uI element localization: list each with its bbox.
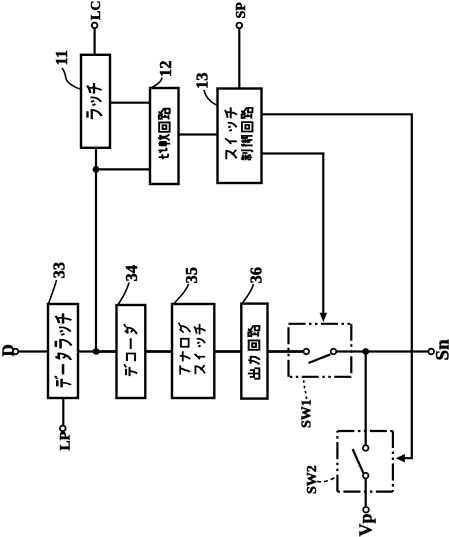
wire SW1 to Sn terminal through node J3 <box>337 350 428 352</box>
svg-text:D: D <box>0 344 18 356</box>
wire SP terminal to switch-control 13 <box>238 29 240 89</box>
label SW1 <box>300 379 315 428</box>
switch SW1 lever <box>309 354 331 363</box>
wire LC terminal to latch 11 <box>93 29 95 55</box>
wire switch-control 13 to SW1 (control, arrow into top) <box>262 154 327 323</box>
wire switch-control 13 to SW2 (feedback, arrow into right side) <box>262 114 412 462</box>
label SW2 <box>305 465 337 494</box>
svg-text:34: 34 <box>122 265 141 282</box>
block 33 data latch (データラッチ) <box>48 304 78 398</box>
label 12 with leader <box>151 61 176 89</box>
block 34 decoder (デコーダ) <box>117 305 146 398</box>
svg-text:33: 33 <box>50 262 69 279</box>
svg-text:12: 12 <box>156 61 175 78</box>
switch SW2 upper contact <box>363 445 369 451</box>
terminal LC <box>89 1 104 29</box>
label 34 with leader <box>118 265 142 306</box>
block 11 latch (ラッチ) <box>81 55 110 148</box>
wire node J1 down to data bus node J2 <box>95 169 97 351</box>
wire node J1 to comparator 12 <box>96 168 150 170</box>
switch SW1 right contact <box>331 349 337 355</box>
switch SW2 dash-dot enclosure <box>337 431 393 492</box>
node J1 junction dot <box>93 166 100 173</box>
terminal LP <box>58 426 74 451</box>
svg-text:35: 35 <box>182 267 201 284</box>
svg-text:SW2: SW2 <box>305 465 320 494</box>
label 11 with leader <box>52 50 82 89</box>
wire decoder 34 to analog switch 35 <box>145 350 172 353</box>
node J3 junction dot <box>362 348 369 355</box>
svg-text:SW1: SW1 <box>300 399 315 428</box>
label 33 with leader <box>49 262 69 304</box>
wire latch 11 bottom to node J1 <box>95 148 97 170</box>
wire latch 11 to comparator 12 <box>110 102 150 104</box>
wire SW2 to Vp terminal <box>365 479 367 507</box>
svg-text:36: 36 <box>247 267 266 284</box>
block 36 output circuit (出力回路) <box>241 304 267 399</box>
switch SW1 left contact <box>304 349 310 355</box>
svg-text:Sn: Sn <box>433 339 449 361</box>
terminal D <box>0 344 18 356</box>
svg-text:LP: LP <box>58 431 74 450</box>
svg-text:11: 11 <box>52 50 71 66</box>
terminal SP <box>234 2 249 28</box>
svg-text:13: 13 <box>193 73 212 90</box>
wire node J3 down into SW2 <box>365 352 367 445</box>
switch SW2 lower contact <box>363 473 369 479</box>
wire data latch 33 to LP terminal <box>62 398 64 425</box>
node J2 junction dot <box>93 348 100 355</box>
svg-text:LC: LC <box>89 1 104 20</box>
wire data latch 33 to decoder 34 through node J2 <box>78 350 117 352</box>
block 13 switch control circuit (スイッチ制御回路) <box>218 89 262 184</box>
wire analog switch 35 to output circuit 36 <box>214 350 241 353</box>
wire output circuit 36 into SW1 <box>268 350 304 353</box>
block 12 comparator (比較回路) <box>150 88 179 184</box>
wire D terminal to data latch 33 <box>19 350 48 352</box>
svg-text:Vp: Vp <box>356 513 376 536</box>
block 35 analog switch (アナログスイッチ) <box>172 304 214 398</box>
wire comparator 12 to switch-control 13 <box>179 133 218 135</box>
label 13 with leader <box>193 73 218 106</box>
label 36 with leader <box>242 267 266 304</box>
terminal Vp <box>356 507 376 537</box>
switch SW1 dash-dot enclosure <box>289 324 352 377</box>
terminal Sn <box>428 339 449 361</box>
svg-text:SP: SP <box>234 2 249 19</box>
label 35 with leader <box>174 267 202 304</box>
switch SW2 lever <box>353 449 364 475</box>
